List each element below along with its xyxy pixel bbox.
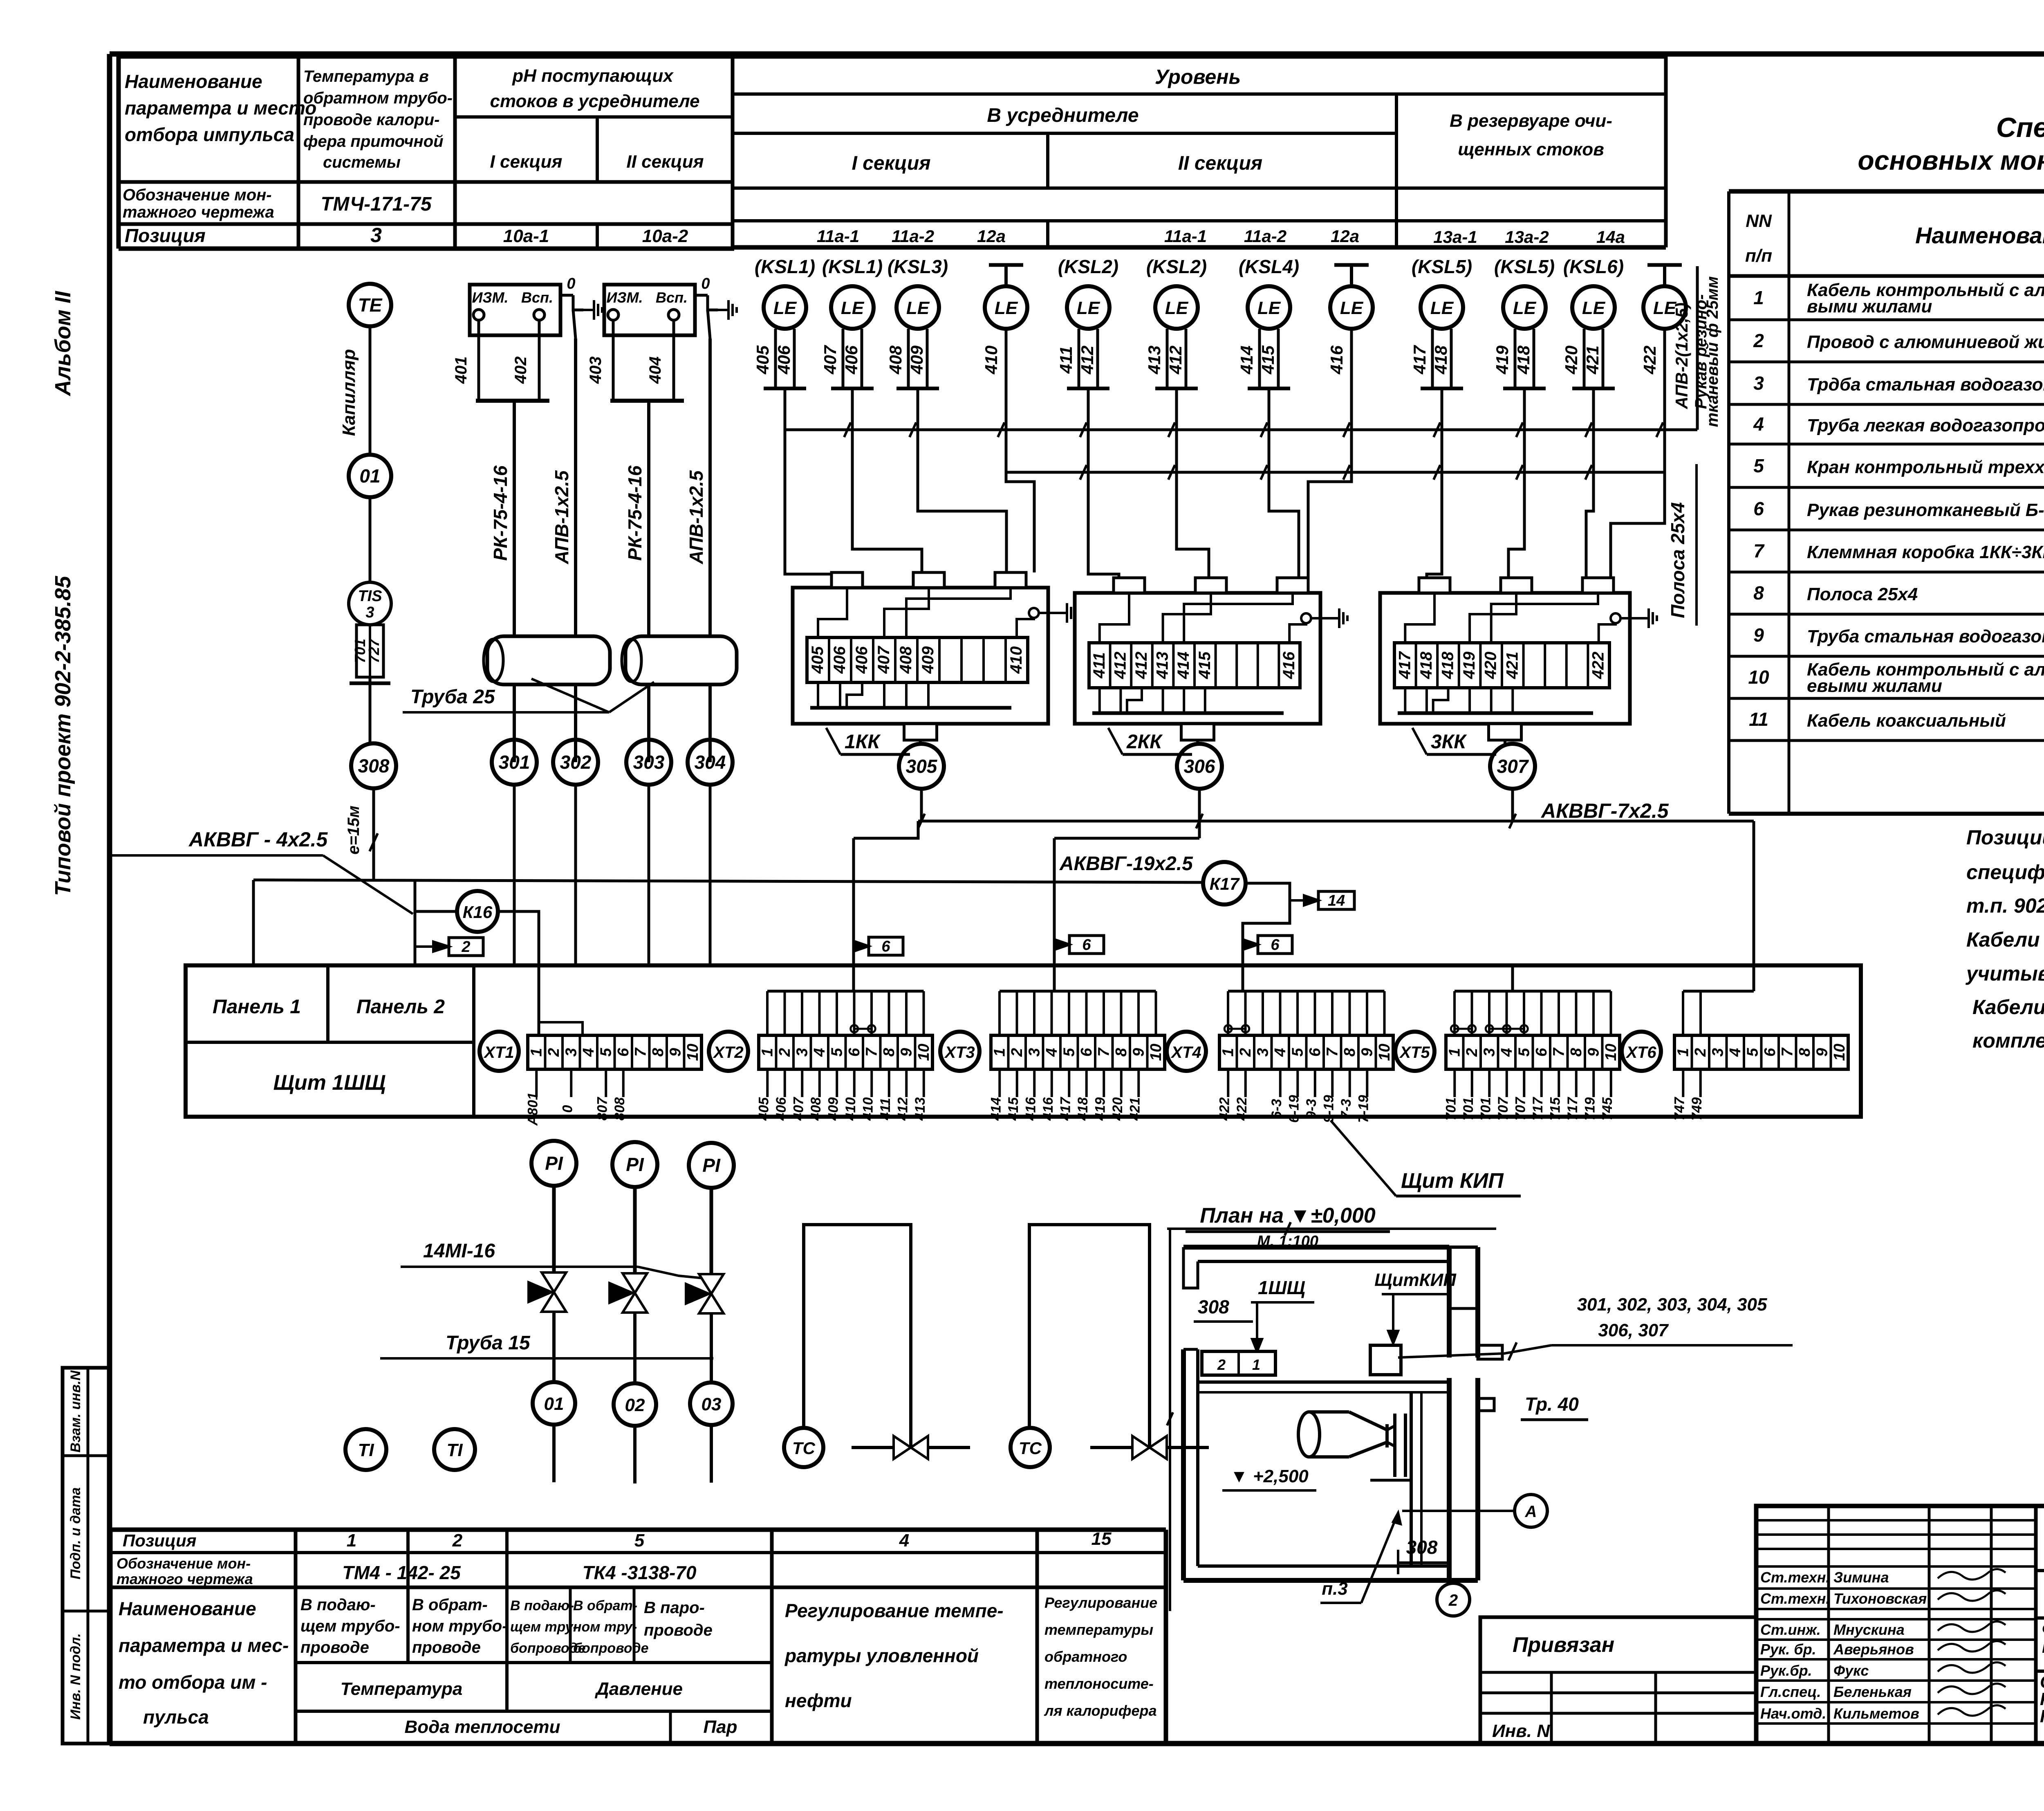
svg-text:717: 717	[1530, 1097, 1546, 1121]
level sensor LE x=2245	[896, 286, 939, 329]
wire К16 into ХТ1	[539, 1022, 583, 1035]
svg-text:302: 302	[560, 752, 592, 773]
level sensor LE x=2461	[985, 286, 1027, 329]
terminal strip ХТ1 circle	[480, 1032, 519, 1071]
wire 405/406 to 1КК	[785, 388, 836, 574]
cable АПВ-1х2.5 (304)	[708, 339, 712, 762]
svg-text:Ст.инж.: Ст.инж.	[1760, 1621, 1821, 1638]
svg-text:412: 412	[1111, 652, 1129, 680]
svg-text:6: 6	[1762, 1048, 1779, 1057]
level sensor LE x=3104	[1248, 286, 1290, 329]
cable circle 02 (impulse)	[614, 1383, 656, 1426]
svg-text:415: 415	[1196, 651, 1214, 679]
svg-text:401: 401	[452, 357, 470, 384]
plan walls	[1183, 1247, 1502, 1580]
cable circle К16	[457, 891, 498, 932]
svg-text:2: 2	[1753, 330, 1764, 351]
svg-text:ратуры уловленной: ратуры уловленной	[784, 1645, 979, 1666]
svg-text:системы: системы	[323, 153, 401, 171]
panel enclosure Щит 1ШЩ	[186, 965, 1861, 1117]
wire 305 drop	[920, 789, 923, 821]
svg-text:6-19: 6-19	[1286, 1095, 1302, 1123]
svg-text:6: 6	[1753, 498, 1764, 519]
pipe Труба 25 (left)	[487, 636, 610, 684]
svg-text:Беленькая: Беленькая	[1833, 1683, 1912, 1700]
svg-text:0: 0	[701, 275, 710, 292]
svg-text:Температура: Температура	[341, 1679, 463, 1699]
svg-text:щем тру-: щем тру-	[510, 1619, 578, 1635]
svg-text:TI: TI	[358, 1440, 374, 1460]
cable pair 407/406	[842, 329, 845, 388]
svg-text:PI: PI	[702, 1155, 721, 1176]
svg-text:Температура в: Температура в	[303, 67, 429, 85]
bus АПВ-2(1х2.5) upper	[785, 429, 1697, 431]
wire 302 to panel	[574, 785, 577, 965]
svg-text:нефти: нефти	[785, 1690, 852, 1711]
svg-text:416: 416	[1327, 345, 1346, 375]
svg-text:303: 303	[633, 752, 665, 773]
svg-text:406: 406	[842, 345, 861, 375]
riser into panel x=4290	[1753, 821, 1755, 965]
plan dimension line left vertical	[1169, 1229, 1171, 1611]
svg-text:414: 414	[1237, 346, 1256, 375]
svg-text:301: 301	[499, 752, 530, 773]
svg-text:Тр. 40: Тр. 40	[1525, 1394, 1579, 1415]
svg-text:Щит 1ШЩ: Щит 1ШЩ	[273, 1071, 385, 1095]
instrument PI 1	[531, 1141, 576, 1186]
svg-text:ИЗМ.: ИЗМ.	[606, 289, 643, 306]
svg-text:10: 10	[1831, 1044, 1848, 1061]
svg-text:Регулирование: Регулирование	[1044, 1594, 1157, 1611]
svg-text:6-3: 6-3	[1269, 1099, 1284, 1119]
level sensor LE x=3527	[1421, 286, 1463, 329]
svg-text:304: 304	[695, 752, 726, 773]
svg-text:Наименование: Наименование	[119, 1598, 256, 1619]
svg-text:701: 701	[1478, 1097, 1493, 1121]
svg-text:Кабели К16, К17 учитываютс: Кабели К16, К17 учитываются в	[1972, 996, 2044, 1019]
cable circle 306	[1177, 744, 1222, 789]
svg-text:1: 1	[528, 1048, 545, 1057]
svg-text:основных монтажных материал: основных монтажных материалов	[1858, 145, 2044, 175]
svg-text:8: 8	[1341, 1048, 1358, 1057]
wire К16 right into panel	[498, 911, 539, 1035]
svg-text:416: 416	[1023, 1097, 1038, 1121]
svg-text:413: 413	[1154, 652, 1172, 680]
svg-text:стоков в усреднителе: стоков в усреднителе	[490, 91, 700, 111]
svg-text:КИП, прокладка кабелей и: КИП, прокладка кабелей и	[2040, 1706, 2044, 1726]
svg-text:параметра и мес-: параметра и мес-	[119, 1635, 289, 1656]
svg-text:421: 421	[1503, 652, 1521, 680]
svg-text:405: 405	[756, 1097, 771, 1121]
level sensor LE x=2662	[1067, 286, 1109, 329]
svg-text:7: 7	[1753, 540, 1765, 561]
svg-text:Ст.техн.: Ст.техн.	[1760, 1569, 1830, 1586]
bus АКВВГ-7х2.5	[918, 820, 1754, 823]
level sensor LE x=3306	[1330, 286, 1373, 329]
svg-text:8: 8	[650, 1048, 667, 1057]
svg-text:0: 0	[560, 1105, 575, 1113]
bus crossing slash lower	[1516, 465, 1523, 480]
svg-text:Труба 15: Труба 15	[446, 1332, 531, 1354]
svg-text:413: 413	[912, 1097, 928, 1121]
svg-text:409: 409	[919, 646, 937, 674]
terminal strip ХТ4 circle	[1167, 1032, 1206, 1071]
terminal box 2КК	[1075, 593, 1320, 724]
svg-text:745: 745	[1600, 1097, 1615, 1121]
svg-text:LE: LE	[841, 298, 865, 318]
svg-text:1: 1	[759, 1048, 776, 1057]
svg-text:308: 308	[1198, 1296, 1229, 1317]
terminal pair 701/727	[356, 625, 383, 677]
svg-text:6: 6	[846, 1048, 863, 1057]
plan box Щит КИП	[1370, 1345, 1401, 1375]
svg-text:ХТ1: ХТ1	[483, 1044, 514, 1061]
bus crossing slash lower	[1434, 465, 1440, 480]
svg-text:Спецификация: Спецификация	[1996, 112, 2044, 143]
margin block (Инв/Подп/Взам)	[63, 1368, 110, 1744]
svg-text:LE: LE	[995, 298, 1018, 318]
svg-text:407: 407	[875, 646, 893, 674]
svg-text:(KSL2): (KSL2)	[1058, 256, 1118, 277]
svg-text:414: 414	[988, 1097, 1004, 1121]
terminal strip ХТ2	[759, 1035, 932, 1069]
svg-text:TC: TC	[1019, 1438, 1042, 1458]
instrument 01 (left chain)	[349, 455, 391, 497]
riser panel x=620	[252, 880, 255, 965]
table: parameter header (top-left)	[119, 56, 734, 249]
svg-text:(KSL1): (KSL1)	[755, 256, 815, 277]
svg-text:1: 1	[1252, 1356, 1260, 1373]
svg-text:II секция: II секция	[626, 152, 704, 172]
svg-text:В резервуаре очи-: В резервуаре очи-	[1450, 111, 1612, 131]
wire К17 right + drop	[1243, 883, 1290, 965]
cable pair 417/418	[1431, 329, 1434, 388]
svg-text:6: 6	[1078, 1048, 1095, 1057]
riser into panel x=2579	[1053, 838, 1056, 965]
svg-text:701: 701	[1443, 1097, 1459, 1121]
cable pair 411/412	[1078, 329, 1080, 388]
svg-text:7: 7	[632, 1047, 649, 1057]
svg-text:обратного: обратного	[1044, 1648, 1127, 1665]
svg-text:419: 419	[1460, 651, 1478, 679]
svg-text:TE: TE	[358, 294, 383, 316]
svg-text:422: 422	[1589, 652, 1607, 680]
svg-text:(KSL3): (KSL3)	[888, 256, 948, 277]
level sensor LE x=3729	[1503, 286, 1546, 329]
svg-text:4: 4	[899, 1530, 909, 1551]
svg-text:Фукс: Фукс	[1833, 1662, 1869, 1679]
svg-text:11а-2: 11а-2	[892, 227, 934, 246]
wire tick-308	[369, 683, 372, 743]
control valve 3 (14МI-16)	[699, 1274, 724, 1294]
svg-text:8: 8	[881, 1048, 898, 1057]
svg-text:02: 02	[625, 1395, 645, 1415]
instrument TE	[349, 284, 391, 326]
svg-text:306, 307: 306, 307	[1598, 1320, 1669, 1340]
panel divider horizontal	[186, 1041, 474, 1044]
svg-text:419: 419	[1493, 345, 1512, 375]
svg-text:10: 10	[684, 1044, 702, 1061]
svg-text:Подп. и дата: Подп. и дата	[68, 1487, 83, 1579]
svg-text:747: 747	[1672, 1097, 1687, 1121]
svg-text:416: 416	[1040, 1097, 1056, 1121]
instrument PI 2	[612, 1142, 657, 1187]
svg-text:3: 3	[1481, 1048, 1498, 1057]
svg-text:ХТ5: ХТ5	[1399, 1044, 1430, 1061]
svg-text:2: 2	[545, 1048, 563, 1057]
svg-text:Давление: Давление	[594, 1679, 683, 1699]
svg-text:419: 419	[1092, 1097, 1108, 1121]
svg-text:411: 411	[1090, 652, 1108, 679]
riser into panel x=2088	[852, 838, 855, 965]
bus crossing slash	[844, 422, 851, 437]
svg-text:5: 5	[634, 1530, 645, 1551]
svg-text:ИЗМ.: ИЗМ.	[472, 289, 508, 306]
svg-text:Кильметов: Кильметов	[1833, 1705, 1919, 1722]
svg-text:пульса: пульса	[143, 1706, 209, 1728]
svg-text:707: 707	[1513, 1097, 1528, 1121]
svg-text:Гл.спец.: Гл.спец.	[1760, 1683, 1821, 1700]
svg-text:LE: LE	[773, 298, 797, 318]
bus crossing slash	[998, 422, 1004, 437]
svg-text:А801: А801	[525, 1092, 540, 1126]
svg-text:LE: LE	[1165, 298, 1189, 318]
svg-text:4: 4	[1043, 1048, 1060, 1057]
svg-text:тканевый ф 25мм: тканевый ф 25мм	[1703, 276, 1721, 427]
svg-text:418: 418	[1514, 345, 1533, 375]
svg-text:406: 406	[853, 646, 871, 674]
wire 410	[1005, 329, 1008, 388]
bus jog middle	[1054, 837, 1199, 840]
svg-text:4: 4	[1727, 1048, 1744, 1057]
svg-text:то отбора им -: то отбора им -	[119, 1672, 267, 1693]
svg-text:408: 408	[897, 646, 915, 674]
svg-text:2: 2	[461, 938, 470, 956]
svg-text:410: 410	[860, 1097, 876, 1121]
svg-text:417: 417	[1410, 345, 1429, 375]
control valve 2 (14МI-16)	[623, 1273, 647, 1293]
svg-text:Рукав резинотканевый Б-: Рукав резинотканевый Б-25	[1807, 500, 2044, 520]
svg-text:Обозначение мон-: Обозначение мон-	[123, 186, 272, 204]
svg-text:422: 422	[1217, 1097, 1232, 1121]
bus crossing slash	[1343, 422, 1350, 437]
svg-text:Кабели N N 301÷307 и труба: Кабели N N 301÷307 и труба 25	[1966, 928, 2044, 951]
svg-text:8: 8	[1568, 1048, 1585, 1057]
svg-text:LE: LE	[1430, 298, 1454, 318]
svg-text:7-3: 7-3	[1338, 1099, 1354, 1119]
svg-text:Инв. N: Инв. N	[1492, 1721, 1550, 1741]
svg-text:TI: TI	[446, 1440, 463, 1460]
svg-text:1: 1	[1219, 1048, 1237, 1057]
wire 408/409 to 1КК	[918, 388, 1006, 572]
svg-text:701: 701	[1461, 1097, 1476, 1121]
svg-text:6: 6	[615, 1048, 632, 1057]
svg-text:Обозначение мон-: Обозначение мон-	[117, 1555, 251, 1572]
svg-text:(KSL5): (KSL5)	[1494, 256, 1555, 277]
svg-text:ЩитКИП: ЩитКИП	[1374, 1270, 1457, 1290]
impulse line PI 3	[710, 1188, 713, 1274]
svg-text:9: 9	[1753, 624, 1764, 646]
terminal strip ХТ3	[991, 1035, 1165, 1069]
svg-text:евыми жилами: евыми жилами	[1807, 676, 1942, 696]
wire bundle above ХТ4	[1228, 990, 1385, 993]
wire bus to К16 stub	[414, 881, 417, 911]
svg-text:т.п. 902-2-385.85-эк.со1.: т.п. 902-2-385.85-эк.со1.	[1966, 894, 2044, 917]
svg-text:727: 727	[365, 638, 382, 663]
svg-text:проводе: проводе	[644, 1621, 713, 1639]
level sensor LE x=4072	[1643, 286, 1686, 329]
svg-text:10: 10	[1376, 1044, 1393, 1061]
svg-text:Провод с алюминиевой жилой: Провод с алюминиевой жилой	[1807, 332, 2044, 352]
bus crossing slash	[1168, 422, 1175, 437]
svg-text:Пар: Пар	[704, 1717, 737, 1737]
svg-text:719: 719	[1582, 1097, 1598, 1121]
svg-text:I секция: I секция	[852, 153, 931, 174]
svg-text:Мнускина: Мнускина	[1833, 1621, 1905, 1638]
svg-text:404: 404	[646, 357, 664, 384]
svg-text:9: 9	[1585, 1048, 1602, 1057]
svg-text:13а-1: 13а-1	[1433, 227, 1477, 247]
wire 410 to 1КК	[1006, 329, 1034, 572]
svg-text:Всп.: Всп.	[521, 289, 553, 306]
svg-text:ля калорифера: ля калорифера	[1044, 1702, 1157, 1719]
svg-text:405: 405	[809, 646, 827, 674]
svg-text:обратном трубо-: обратном трубо-	[303, 89, 453, 107]
plan section circle A	[1515, 1495, 1547, 1527]
svg-text:Капилляр: Капилляр	[339, 349, 359, 436]
svg-text:3КК: 3КК	[1431, 731, 1467, 753]
svg-text:5: 5	[1289, 1048, 1306, 1057]
wire bundle above ХТ5	[1455, 990, 1611, 993]
svg-text:14а: 14а	[1596, 227, 1625, 247]
wire 303 to panel	[648, 785, 650, 965]
svg-text:Труба стальная водогазопров: Труба стальная водогазопроводная	[1807, 626, 2044, 646]
svg-text:В обрат-: В обрат-	[412, 1596, 488, 1614]
svg-text:комплекте АЭМ.: комплекте АЭМ.	[1972, 1029, 2044, 1052]
wire 308 down to bus	[372, 788, 375, 880]
svg-text:10: 10	[1602, 1044, 1620, 1061]
svg-text:LE: LE	[1582, 298, 1606, 318]
svg-text:Инв. N подл.: Инв. N подл.	[68, 1633, 83, 1720]
wire 411/412 to 2КК	[1088, 388, 1119, 578]
terminal strip ХТ4	[1219, 1035, 1393, 1069]
svg-text:PI: PI	[626, 1154, 644, 1175]
bus crossing slash	[1585, 422, 1592, 437]
svg-text:АПВ-2(1х2,5): АПВ-2(1х2,5)	[1672, 303, 1691, 409]
svg-text:1: 1	[1753, 287, 1764, 308]
svg-text:10: 10	[1148, 1044, 1165, 1061]
svg-text:9: 9	[1813, 1048, 1831, 1057]
svg-text:4: 4	[811, 1048, 828, 1057]
wire 417/418 to 3КК	[1427, 388, 1442, 578]
cable circle К17	[1203, 862, 1246, 904]
svg-text:теплоносите-: теплоносите-	[1044, 1675, 1154, 1692]
svg-text:422: 422	[1640, 346, 1659, 375]
callout box 2 with arrow	[449, 938, 483, 956]
svg-text:Клеммная коробка 1КК÷3КК: Клеммная коробка 1КК÷3КК	[1807, 542, 2044, 562]
svg-text:АПВ-1х2.5: АПВ-1х2.5	[551, 470, 572, 564]
svg-text:(KSL5): (KSL5)	[1412, 256, 1472, 277]
callout box 6 (XT3 riser)	[1069, 936, 1104, 954]
cable circle 302	[553, 740, 598, 785]
svg-text:Кабель коаксиальный: Кабель коаксиальный	[1807, 711, 2006, 731]
svg-text:1: 1	[347, 1530, 356, 1551]
svg-text:412: 412	[895, 1097, 910, 1121]
svg-text:Регулирование темпе-: Регулирование темпе-	[785, 1600, 1004, 1621]
wire TIS to tick	[369, 677, 372, 683]
plan section circle 2	[1437, 1583, 1470, 1616]
svg-text:Труба 25: Труба 25	[410, 686, 495, 708]
vent tee above LE x=3306	[1350, 265, 1353, 286]
wire 307 drop	[1511, 789, 1514, 821]
svg-text:7-19: 7-19	[1356, 1095, 1371, 1123]
svg-text:1ШЩ: 1ШЩ	[1258, 1277, 1305, 1298]
svg-text:10: 10	[915, 1044, 932, 1061]
wire 414/415 to 2КК	[1269, 388, 1299, 578]
svg-text:Кран контрольный трехходо: Кран контрольный трехходовой	[1807, 457, 2044, 477]
svg-text:проводе: проводе	[412, 1638, 481, 1656]
title block grid	[1756, 1506, 2044, 1744]
svg-text:АКВВГ-19х2.5: АКВВГ-19х2.5	[1059, 853, 1193, 875]
svg-text:выми жилами: выми жилами	[1807, 296, 1932, 316]
svg-text:LE: LE	[1340, 298, 1364, 318]
table: bottom parameter table	[110, 1530, 1166, 1744]
cable circle 303	[626, 740, 671, 785]
terminal strip ХТ6 circle	[1622, 1032, 1661, 1071]
svg-text:ния производительностью: ния производительностью	[2042, 1637, 2044, 1656]
svg-text:К17: К17	[1210, 874, 1240, 893]
svg-text:11: 11	[1749, 709, 1768, 730]
svg-text:щенных стоков: щенных стоков	[1458, 139, 1604, 159]
bus crossing slash lower	[1168, 465, 1175, 480]
svg-text:АПВ-1х2.5: АПВ-1х2.5	[686, 470, 707, 564]
svg-text:408: 408	[886, 345, 905, 375]
svg-text:LE: LE	[1257, 298, 1281, 318]
svg-text:9-3: 9-3	[1304, 1099, 1319, 1119]
svg-text:717: 717	[1565, 1097, 1580, 1121]
svg-text:412: 412	[1078, 346, 1097, 375]
wire 301 to panel	[513, 785, 516, 965]
svg-text:8: 8	[1753, 582, 1764, 604]
temperature loop TC 2	[1029, 1225, 1150, 1447]
svg-text:411: 411	[1056, 346, 1076, 374]
svg-text:1: 1	[1674, 1048, 1692, 1057]
svg-text:418: 418	[1439, 651, 1457, 679]
svg-text:Щит КИП: Щит КИП	[1401, 1169, 1504, 1193]
svg-text:А: А	[1525, 1503, 1537, 1521]
callout box 6 (К17 riser)	[1258, 936, 1292, 954]
svg-text:410: 410	[1007, 646, 1025, 674]
svg-text:6: 6	[881, 938, 890, 955]
svg-text:306: 306	[1184, 756, 1215, 777]
svg-text:415: 415	[1258, 345, 1277, 375]
svg-text:Нач.отд.: Нач.отд.	[1760, 1705, 1826, 1722]
svg-text:12а: 12а	[977, 227, 1006, 246]
svg-text:3: 3	[563, 1048, 580, 1057]
wire bundle above ХТ3	[1000, 990, 1156, 993]
impulse line PI 2	[633, 1187, 637, 1274]
terminal box 1КК	[793, 588, 1048, 724]
svg-text:Типовой проект 902-2-385.85: Типовой проект 902-2-385.85	[51, 576, 75, 896]
svg-text:I секция: I секция	[490, 152, 563, 172]
svg-text:3: 3	[370, 224, 382, 247]
svg-text:ТМ4 - 142- 25: ТМ4 - 142- 25	[342, 1562, 461, 1583]
svg-text:5: 5	[828, 1048, 845, 1057]
svg-text:pH поступающих: pH поступающих	[512, 66, 674, 86]
svg-text:Позиции приборов указаны в: Позиции приборов указаны в	[1966, 826, 2044, 849]
svg-text:LE: LE	[1513, 298, 1537, 318]
svg-text:Полоса 25х4: Полоса 25х4	[1807, 584, 1918, 604]
